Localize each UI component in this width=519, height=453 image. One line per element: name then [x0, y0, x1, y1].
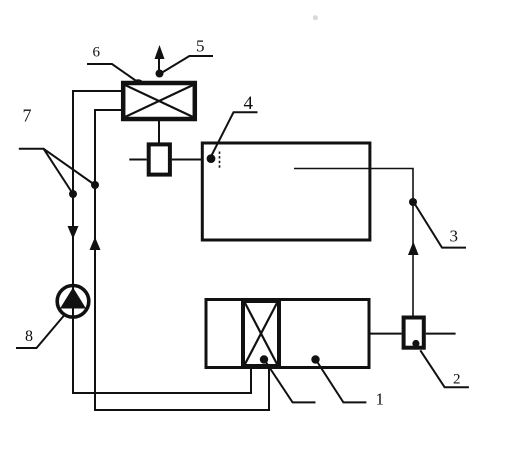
wire tank1 to valve 2	[369, 333, 402, 335]
node dot on wire A	[69, 190, 77, 198]
node dot on top of box 6	[156, 70, 164, 78]
node dot on wire B	[91, 181, 99, 189]
svg-text:8: 8	[25, 328, 33, 345]
wire B return: box6 left lower to down, bottom turn right, up into box 1	[95, 110, 269, 410]
inner pipe line to 3	[294, 169, 413, 316]
node dot 3	[409, 198, 417, 206]
label 4	[211, 93, 258, 158]
lower tank 1	[206, 300, 369, 368]
svg-text:2: 2	[453, 372, 461, 388]
wire valve 2 right stub	[426, 333, 456, 335]
label 6	[87, 45, 143, 85]
svg-text:3: 3	[450, 227, 459, 246]
pump 8	[57, 286, 89, 318]
svg-text:4: 4	[244, 93, 254, 114]
node dot in tank 1	[311, 355, 319, 363]
node dot in heater	[260, 355, 268, 363]
label 7 with two pointers	[19, 106, 95, 195]
wire left stub of box4	[129, 159, 146, 161]
label 5	[161, 37, 214, 74]
wire from box6 down to box4	[158, 121, 160, 143]
arrow up on wire B	[90, 237, 101, 250]
label 8	[16, 316, 64, 349]
svg-text:1: 1	[376, 390, 385, 409]
upper tank (large rectangle)	[202, 143, 370, 240]
condenser small box 4	[149, 144, 170, 174]
arrow up on riser	[408, 242, 419, 256]
air outlet arrow 5	[155, 45, 165, 74]
wire box4 to tank	[172, 159, 203, 161]
crossed heater box inside tank 1	[243, 301, 279, 366]
small dashed tick	[219, 152, 221, 170]
label 2	[420, 350, 469, 387]
valve box 2	[404, 318, 424, 348]
arrow down on wire A	[68, 226, 79, 239]
node dot at tank left edge	[207, 154, 216, 163]
speck artifact	[313, 15, 318, 20]
pointer from heater dot	[265, 360, 316, 402]
label 3	[415, 204, 467, 248]
wire A supply: box6 left to down-left, down through pump, bottom turn right, up into box 1	[73, 91, 251, 393]
svg-text:6: 6	[93, 45, 101, 61]
svg-text:7: 7	[23, 106, 32, 126]
heat exchanger 6 (crossed box)	[123, 83, 195, 119]
svg-text:5: 5	[196, 37, 205, 56]
label 1	[316, 360, 384, 409]
